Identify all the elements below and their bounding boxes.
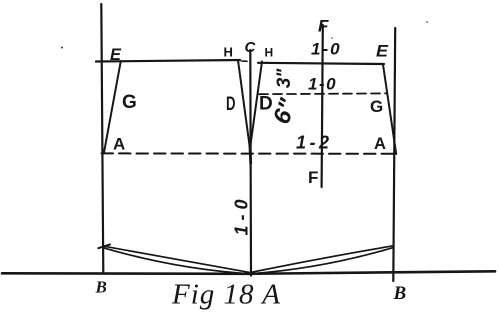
svg-text:1-0: 1-0 bbox=[232, 194, 252, 235]
svg-text:C: C bbox=[245, 39, 257, 56]
speck dot near F line bbox=[331, 37, 333, 39]
svg-text:G: G bbox=[122, 92, 137, 113]
svg-text:H: H bbox=[224, 45, 233, 60]
right slant line H-D bbox=[250, 62, 262, 146]
speck dot left bbox=[61, 47, 63, 49]
left slant line E-G-A bbox=[104, 61, 121, 153]
left hem tick bbox=[98, 244, 110, 248]
dashed A line across bbox=[102, 152, 398, 154]
V merge stroke below D bbox=[248, 145, 252, 163]
small dash near center top bbox=[242, 60, 248, 62]
svg-text:H: H bbox=[265, 46, 274, 60]
right hem curve upper bbox=[251, 246, 393, 273]
right hem curve lower bbox=[251, 248, 393, 274]
svg-text:F: F bbox=[308, 168, 318, 187]
svg-text:E: E bbox=[376, 42, 389, 61]
dashed chest line (right panel) bbox=[259, 92, 387, 95]
svg-text:B: B bbox=[393, 283, 407, 304]
left slant line H-D bbox=[238, 60, 250, 146]
speck dot right bbox=[426, 21, 428, 23]
svg-text:G: G bbox=[370, 97, 383, 116]
right top line H-E bbox=[258, 63, 384, 64]
svg-text:1-2: 1-2 bbox=[296, 133, 333, 153]
svg-text:1-0: 1-0 bbox=[308, 75, 337, 94]
left top line E-H bbox=[96, 60, 240, 62]
left vertical line E-B bbox=[101, 4, 103, 273]
left hem curve upper bbox=[104, 246, 250, 272]
baseline (ground line) bbox=[2, 271, 495, 274]
svg-text:A: A bbox=[113, 135, 125, 154]
center vertical line C bbox=[249, 50, 252, 276]
right slant line E-G-A bbox=[383, 65, 396, 155]
svg-text:D: D bbox=[226, 94, 236, 115]
svg-text:B: B bbox=[95, 278, 107, 297]
right vertical line E-B bbox=[393, 28, 395, 281]
F vertical line bbox=[322, 25, 323, 187]
svg-text:A: A bbox=[374, 135, 386, 153]
svg-text:F: F bbox=[318, 17, 329, 36]
svg-text:6": 6" bbox=[268, 95, 302, 128]
svg-text:E: E bbox=[110, 45, 122, 64]
svg-text:Fig 18 A: Fig 18 A bbox=[171, 279, 281, 311]
svg-text:1-0: 1-0 bbox=[311, 40, 342, 59]
svg-text:3": 3" bbox=[274, 68, 295, 89]
left hem curve lower bbox=[104, 248, 250, 274]
